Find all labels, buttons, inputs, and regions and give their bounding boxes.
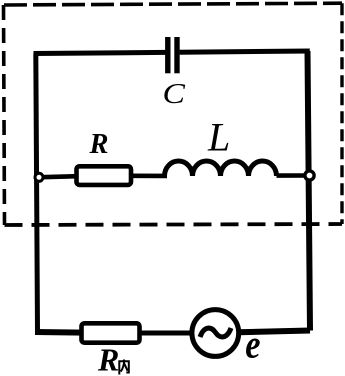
wire: L to right node [277, 173, 310, 178]
dashed boundary box (top edge) [4, 3, 342, 5]
wire: between R and L [131, 174, 167, 179]
dashed boundary box (right edge) [340, 3, 343, 224]
svg-text:L: L [207, 115, 230, 160]
wire: bottom left lead [35, 329, 84, 336]
svg-text:C: C [163, 78, 186, 110]
node: left junction [35, 173, 43, 181]
capacitor C plates [168, 37, 177, 73]
wire: source to bottom right [239, 331, 310, 333]
wire: top left segment [34, 52, 166, 53]
dashed boundary box (bottom edge) [5, 224, 343, 225]
node: right junction [305, 171, 314, 180]
svg-text:R: R [89, 129, 109, 160]
svg-text:R: R [97, 342, 119, 376]
wire: top right segment [180, 51, 310, 52]
dashed boundary box (left edge) [4, 5, 5, 225]
wire: left vertical [36, 54, 38, 333]
AC source e circle [192, 310, 239, 357]
inductor L coil [165, 161, 277, 176]
wire: right vertical [308, 51, 311, 331]
wire: middle left lead [37, 176, 78, 177]
AC source sine symbol [200, 328, 231, 337]
resistor R内 body [82, 323, 140, 342]
wire: between R内 and source [140, 331, 193, 336]
label R内 [97, 342, 129, 376]
resistor R body [77, 166, 132, 185]
